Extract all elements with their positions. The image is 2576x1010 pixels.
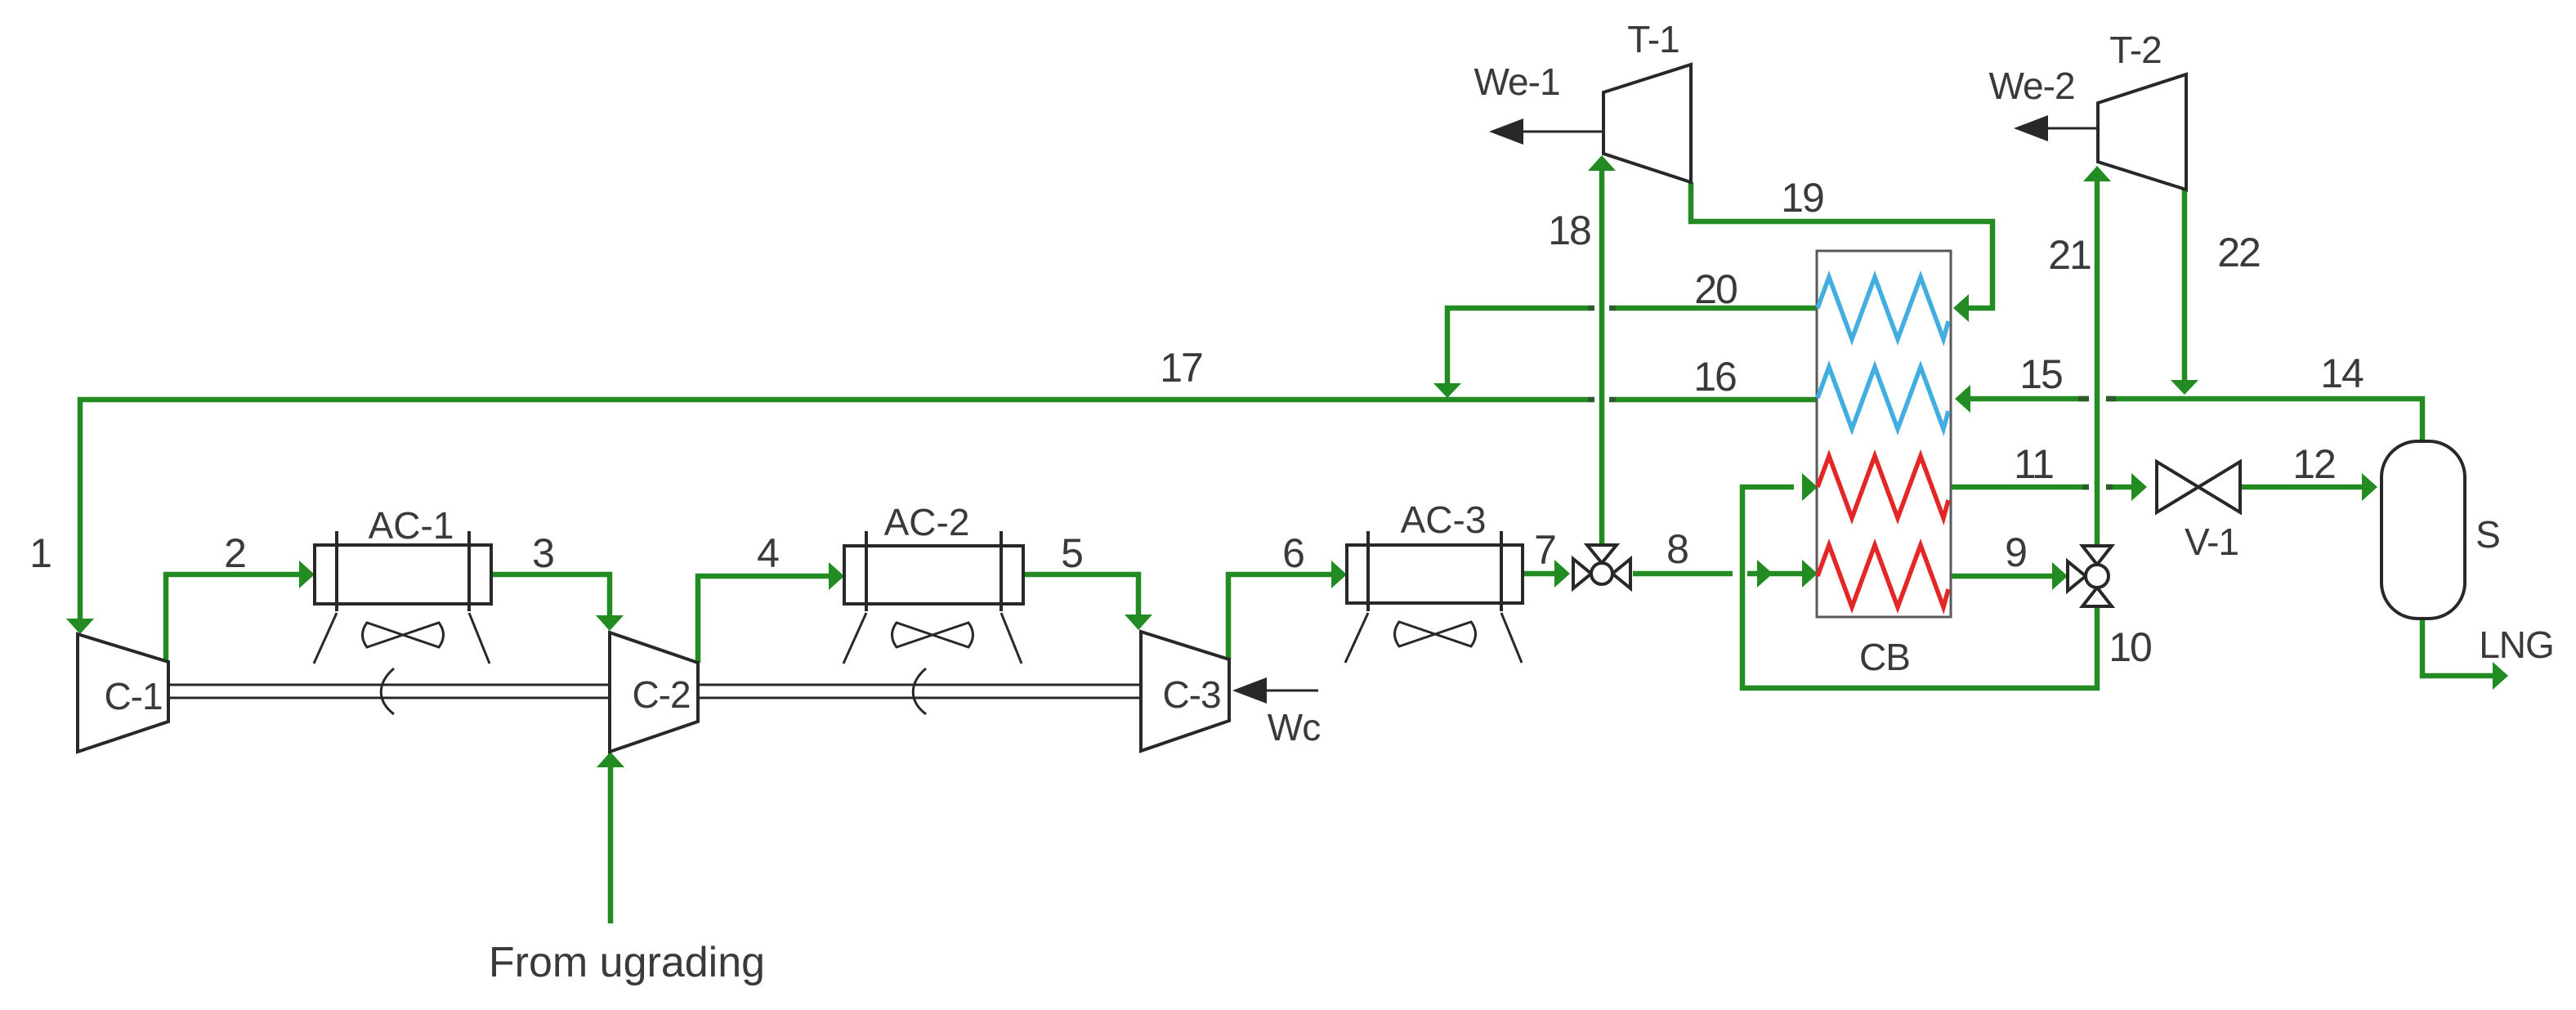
- svg-text:C-3: C-3: [1162, 673, 1220, 716]
- svg-text:16: 16: [1693, 354, 1736, 400]
- svg-text:C-1: C-1: [104, 675, 162, 717]
- svg-text:1: 1: [29, 530, 51, 576]
- splitter valve 2 (streams 9/21/10): [2068, 546, 2112, 606]
- We-1 work arrow: [1474, 60, 1603, 145]
- wire stream 6 from C-3 to AC-3: [1228, 561, 1347, 659]
- separator S: [2381, 441, 2465, 619]
- svg-text:2: 2: [224, 530, 245, 576]
- svg-text:12: 12: [2292, 441, 2335, 487]
- wire stream 2 from C-1 to AC-1: [166, 561, 315, 662]
- wire stream 12 from V-1 to separator S: [2240, 473, 2377, 501]
- svg-text:S: S: [2475, 513, 2500, 556]
- svg-text:22: 22: [2217, 230, 2260, 275]
- svg-text:AC-3: AC-3: [1401, 498, 1487, 541]
- wire From ugrading feed into C-2: [597, 752, 624, 923]
- wire stream 9 from red coil 2 to splitter 2: [1951, 562, 2068, 590]
- cold box CB: [1817, 251, 1951, 678]
- wire LNG product from separator bottom: [2422, 619, 2508, 690]
- Wc work arrow into C-3: [1232, 677, 1320, 749]
- wire stream 17/16 main recycle horizontal + stream 1 drop to C-1: [66, 400, 1818, 634]
- wire stream 7 from AC-3 to splitter valve: [1523, 560, 1570, 588]
- svg-text:AC-1: AC-1: [369, 504, 454, 547]
- svg-text:7: 7: [1534, 527, 1555, 573]
- svg-text:T-1: T-1: [1627, 18, 1679, 60]
- svg-text:6: 6: [1282, 530, 1304, 576]
- compressor C-1: [78, 634, 168, 752]
- svg-text:3: 3: [532, 530, 553, 576]
- wire stream 3 from AC-1 to C-2: [491, 574, 624, 631]
- svg-text:11: 11: [2014, 441, 2053, 487]
- wire stream 4 from C-2 to AC-2: [698, 562, 844, 663]
- svg-text:T-2: T-2: [2109, 29, 2161, 71]
- svg-text:21: 21: [2048, 232, 2091, 278]
- wire stream 19 from T-1 outlet to blue coil 1: [1691, 182, 1992, 322]
- valve V-1: [2157, 462, 2240, 563]
- turbine T-1: [1603, 65, 1691, 182]
- wire stream 8 from splitter to red coil 2: [1633, 560, 1818, 588]
- turbine T-2: [2098, 74, 2186, 190]
- svg-text:We-1: We-1: [1474, 60, 1559, 103]
- wire stream 22 from T-2 outlet to line 15: [2171, 190, 2198, 395]
- svg-text:From ugrading: From ugrading: [489, 939, 765, 986]
- svg-text:5: 5: [1061, 530, 1082, 576]
- wire stream 20 from blue coil 1 to recycle line: [1433, 308, 1818, 398]
- svg-text:20: 20: [1694, 266, 1737, 312]
- compressor C-2: [610, 632, 698, 752]
- svg-text:15: 15: [2019, 351, 2062, 397]
- svg-text:10: 10: [2109, 624, 2151, 670]
- svg-text:We-2: We-2: [1988, 65, 2074, 107]
- svg-text:V-1: V-1: [2185, 521, 2238, 563]
- wire stream 5 from AC-2 to C-3: [1023, 574, 1152, 630]
- svg-text:LNG: LNG: [2479, 623, 2554, 666]
- We-2 work arrow: [1988, 65, 2098, 141]
- svg-text:18: 18: [1548, 208, 1590, 253]
- red coil 2 (stream 8-9): [1818, 545, 1948, 607]
- svg-text:8: 8: [1666, 526, 1688, 572]
- wire stream 14/15 from separator top to blue coil 2: [1955, 385, 2422, 441]
- wire stream 18 from splitter to T-1: [1588, 155, 1616, 545]
- svg-text:4: 4: [757, 530, 779, 576]
- shaft C-2 to C-3: [698, 668, 1141, 714]
- air cooler AC-1: [314, 504, 491, 664]
- svg-text:C-2: C-2: [632, 673, 690, 716]
- wire stream 11 from red coil 1 to valve V-1: [1951, 473, 2147, 501]
- compressor C-3: [1141, 632, 1229, 751]
- air cooler AC-2: [843, 501, 1023, 664]
- svg-text:AC-2: AC-2: [884, 501, 970, 543]
- blue coil 1 (stream 19-20): [1818, 277, 1948, 339]
- svg-text:17: 17: [1160, 345, 1202, 391]
- air cooler AC-3: [1345, 498, 1523, 663]
- svg-text:9: 9: [2005, 530, 2026, 575]
- blue coil 2 (stream 15-16): [1818, 367, 1948, 429]
- svg-text:Wc: Wc: [1268, 706, 1320, 749]
- svg-text:CB: CB: [1859, 636, 1910, 678]
- splitter valve 1 (streams 7/8/18): [1573, 545, 1630, 588]
- wire stream 10 loop from splitter 2 bottom to red coil 1: [1742, 473, 2097, 688]
- shaft C-1 to C-2: [168, 668, 610, 714]
- wire stream 21 from splitter 2 to T-2: [2083, 166, 2111, 546]
- svg-text:19: 19: [1781, 175, 1823, 221]
- svg-text:14: 14: [2320, 351, 2364, 396]
- red coil 1 (stream 10-11): [1818, 456, 1948, 518]
